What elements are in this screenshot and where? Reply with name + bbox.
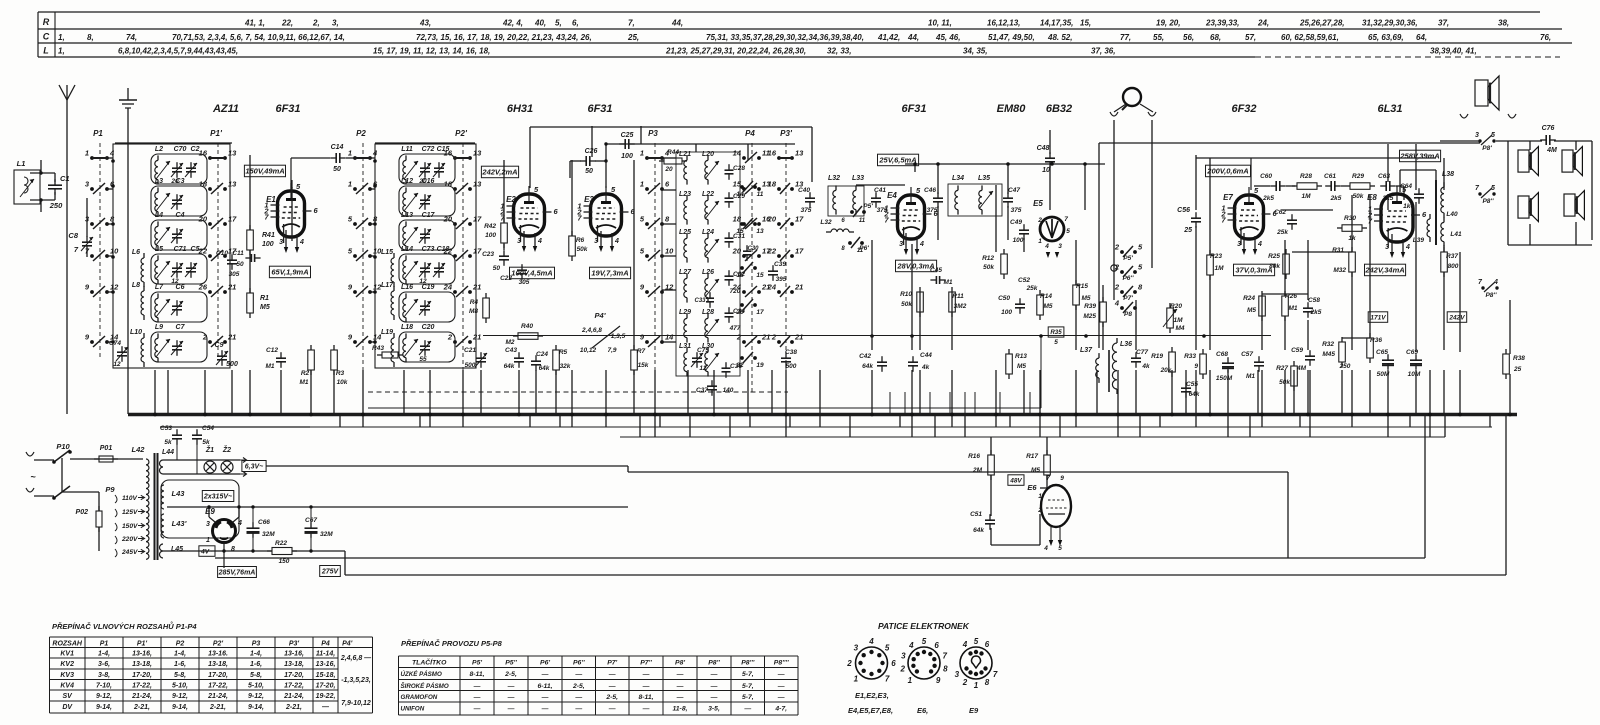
svg-text:—: — <box>642 706 650 713</box>
svg-text:L41: L41 <box>1450 231 1462 238</box>
svg-text:3: 3 <box>206 521 210 528</box>
svg-text:9: 9 <box>936 676 941 685</box>
svg-text:C59: C59 <box>1291 347 1303 354</box>
svg-text:—: — <box>676 683 684 690</box>
svg-text:2-21,: 2-21, <box>209 704 226 711</box>
svg-text:6F31: 6F31 <box>587 103 612 115</box>
svg-text:75,31, 33,35,37,28,29,30,32,34: 75,31, 33,35,37,28,29,30,32,34,36,39,38,… <box>706 33 864 42</box>
svg-text:L4: L4 <box>155 212 163 219</box>
svg-text:375: 375 <box>1011 207 1022 214</box>
svg-text:250: 250 <box>49 201 63 210</box>
svg-text:19V,7,3mA: 19V,7,3mA <box>591 269 628 278</box>
svg-text:C24: C24 <box>536 351 548 358</box>
svg-text:5-8,: 5-8, <box>174 672 186 679</box>
svg-text:20k: 20k <box>1160 367 1172 374</box>
svg-text:M8: M8 <box>469 308 478 315</box>
svg-text:10: 10 <box>665 247 674 256</box>
svg-text:3: 3 <box>1475 132 1479 139</box>
svg-text:8,: 8, <box>87 33 94 42</box>
svg-text:11: 11 <box>857 248 864 254</box>
svg-text:P8'''': P8'''' <box>774 660 789 667</box>
svg-text:E4: E4 <box>887 191 897 200</box>
svg-text:13-16,: 13-16, <box>316 661 336 668</box>
svg-text:R20: R20 <box>1170 303 1182 310</box>
svg-text:L39: L39 <box>1413 237 1425 244</box>
svg-text:L11: L11 <box>401 146 413 153</box>
svg-text:1k6: 1k6 <box>1403 203 1414 210</box>
svg-text:4: 4 <box>1044 243 1049 250</box>
svg-text:KV2: KV2 <box>60 661 74 668</box>
svg-text:21: 21 <box>472 333 481 342</box>
svg-text:E9: E9 <box>969 706 979 715</box>
svg-text:21: 21 <box>794 283 803 292</box>
svg-text:7: 7 <box>942 652 947 661</box>
svg-text:C74: C74 <box>109 340 121 347</box>
svg-text:P6'': P6'' <box>1122 275 1133 282</box>
svg-text:50: 50 <box>493 265 501 272</box>
svg-text:R36: R36 <box>1370 337 1382 344</box>
svg-text:125V: 125V <box>122 509 138 516</box>
svg-text:R6: R6 <box>576 237 585 244</box>
svg-text:17: 17 <box>756 309 764 316</box>
svg-text:C68: C68 <box>1216 351 1228 358</box>
svg-text:23,39,33,: 23,39,33, <box>1205 19 1239 28</box>
svg-text:10k: 10k <box>337 379 348 386</box>
svg-text:P6': P6' <box>540 660 550 667</box>
svg-text:48. 52,: 48. 52, <box>1047 33 1072 42</box>
svg-text:L6: L6 <box>132 249 140 256</box>
svg-text:8: 8 <box>943 665 948 674</box>
svg-text:13: 13 <box>756 228 764 235</box>
svg-text:8-11,: 8-11, <box>470 671 485 678</box>
svg-text:2k5: 2k5 <box>1262 195 1274 202</box>
svg-text:100: 100 <box>621 153 633 160</box>
svg-text:17-20,: 17-20, <box>316 683 336 690</box>
svg-text:L19: L19 <box>381 329 393 336</box>
svg-text:1: 1 <box>1038 238 1042 245</box>
svg-text:65, 63,69,: 65, 63,69, <box>1368 33 1404 42</box>
svg-text:150V,49mA: 150V,49mA <box>245 167 284 176</box>
svg-text:1: 1 <box>908 676 913 685</box>
svg-text:L14: L14 <box>401 246 413 253</box>
svg-text:21: 21 <box>794 333 803 342</box>
svg-text:R17: R17 <box>1026 453 1038 460</box>
svg-text:150: 150 <box>279 558 290 565</box>
svg-text:C72: C72 <box>422 146 435 153</box>
svg-text:—: — <box>608 683 616 690</box>
svg-text:R7: R7 <box>637 348 646 355</box>
svg-text:C22: C22 <box>500 275 512 282</box>
svg-text:9: 9 <box>1060 475 1064 482</box>
svg-text:—: — <box>507 706 515 713</box>
svg-text:7,: 7, <box>628 19 635 28</box>
svg-text:C3: C3 <box>176 178 185 185</box>
svg-text:21: 21 <box>472 283 481 292</box>
svg-text:2,4,6,8 —: 2,4,6,8 — <box>340 655 372 662</box>
svg-text:R33: R33 <box>1184 353 1196 360</box>
svg-text:P3: P3 <box>648 129 658 138</box>
svg-text:M4: M4 <box>1175 325 1184 332</box>
svg-text:9-12,: 9-12, <box>248 693 264 700</box>
svg-text:21: 21 <box>227 283 236 292</box>
svg-text:L2: L2 <box>155 146 163 153</box>
svg-text:—: — <box>608 671 616 678</box>
svg-text:17-22,: 17-22, <box>284 683 304 690</box>
svg-text:2x315V~: 2x315V~ <box>203 494 232 501</box>
svg-text:16,12,13,: 16,12,13, <box>987 19 1020 28</box>
svg-text:15,: 15, <box>1080 19 1091 28</box>
svg-text:—: — <box>473 683 481 690</box>
svg-text:8-11,: 8-11, <box>639 694 654 701</box>
svg-text:2: 2 <box>736 333 742 342</box>
svg-text:32, 33,: 32, 33, <box>827 47 851 56</box>
svg-text:3: 3 <box>955 670 960 679</box>
svg-text:245V: 245V <box>121 549 138 556</box>
svg-text:258V,39mA: 258V,39mA <box>1399 152 1439 161</box>
svg-text:4: 4 <box>1114 299 1120 308</box>
svg-text:L32: L32 <box>820 219 832 226</box>
svg-text:100: 100 <box>1013 237 1024 244</box>
svg-text:L8: L8 <box>132 282 140 289</box>
svg-text:—: — <box>676 671 684 678</box>
svg-text:R27: R27 <box>1276 365 1288 372</box>
svg-text:5: 5 <box>974 637 979 646</box>
svg-text:C11: C11 <box>232 250 244 257</box>
svg-text:E4,E5,E7,E8,: E4,E5,E7,E8, <box>848 706 893 715</box>
svg-text:25k: 25k <box>1276 229 1288 236</box>
svg-text:R43: R43 <box>372 345 384 352</box>
svg-text:C4: C4 <box>176 212 185 219</box>
svg-text:P3': P3' <box>780 129 793 138</box>
svg-text:5k: 5k <box>164 439 172 446</box>
svg-text:7: 7 <box>1064 216 1068 223</box>
svg-text:50k: 50k <box>983 264 994 271</box>
svg-text:C5: C5 <box>191 246 200 253</box>
svg-text:M5: M5 <box>1017 363 1026 370</box>
svg-text:41,42,: 41,42, <box>877 33 900 42</box>
svg-text:C65: C65 <box>1376 349 1388 356</box>
svg-text:E7: E7 <box>1223 193 1233 202</box>
svg-text:C40: C40 <box>798 187 810 194</box>
svg-text:R44: R44 <box>667 149 679 156</box>
svg-text:1: 1 <box>85 149 89 158</box>
svg-text:24: 24 <box>767 283 777 292</box>
svg-text:2: 2 <box>771 333 777 342</box>
svg-text:6F31: 6F31 <box>275 103 300 115</box>
svg-text:L43': L43' <box>172 519 187 528</box>
svg-text:28V,0,3mA: 28V,0,3mA <box>896 262 934 271</box>
svg-text:250: 250 <box>1339 363 1351 370</box>
svg-text:L13: L13 <box>401 212 413 219</box>
svg-text:—: — <box>710 694 718 701</box>
svg-text:1M: 1M <box>1214 265 1224 272</box>
svg-text:SV: SV <box>63 693 74 700</box>
svg-text:20: 20 <box>664 166 673 173</box>
svg-text:P3: P3 <box>252 641 261 648</box>
svg-text:R14: R14 <box>1040 293 1052 300</box>
svg-text:E6: E6 <box>1027 483 1037 492</box>
svg-text:100: 100 <box>262 241 274 248</box>
svg-text:L27: L27 <box>679 269 692 276</box>
svg-text:25,26,27,28,: 25,26,27,28, <box>1299 19 1344 28</box>
svg-text:21-24,: 21-24, <box>283 693 304 700</box>
svg-text:P8'': P8'' <box>1482 198 1493 205</box>
svg-text:10: 10 <box>110 247 119 256</box>
svg-text:P8': P8' <box>675 660 685 667</box>
svg-text:E5: E5 <box>1033 199 1043 208</box>
svg-text:3: 3 <box>1385 244 1389 251</box>
svg-text:2-5,: 2-5, <box>504 671 517 678</box>
svg-text:C58: C58 <box>1308 297 1320 304</box>
svg-text:M5: M5 <box>1043 303 1052 310</box>
svg-text:64k: 64k <box>1189 391 1200 398</box>
svg-text:EM80: EM80 <box>997 103 1027 115</box>
svg-text:1M: 1M <box>1301 193 1311 200</box>
svg-text:8: 8 <box>985 678 990 687</box>
svg-text:4: 4 <box>1405 244 1410 251</box>
svg-text:C73: C73 <box>422 246 435 253</box>
svg-text:2: 2 <box>1037 217 1042 224</box>
svg-text:21: 21 <box>761 333 770 342</box>
svg-text:285V,76mA: 285V,76mA <box>218 570 256 577</box>
svg-text:56,: 56, <box>1183 33 1194 42</box>
svg-text:34, 35,: 34, 35, <box>963 47 987 56</box>
svg-text:17-22,: 17-22, <box>132 683 152 690</box>
svg-text:C7: C7 <box>176 324 186 331</box>
svg-text:C20: C20 <box>422 324 435 331</box>
svg-text:P01: P01 <box>100 445 113 452</box>
svg-text:M5: M5 <box>1031 467 1040 474</box>
svg-text:C46: C46 <box>924 187 936 194</box>
svg-text:R12: R12 <box>982 255 994 262</box>
svg-text:C57: C57 <box>1241 351 1253 358</box>
svg-text:64k: 64k <box>504 363 515 370</box>
svg-text:2,: 2, <box>312 19 320 28</box>
svg-text:6,8,10,42,2,3,4,5,7,9,44,43,43: 6,8,10,42,2,3,4,5,7,9,44,43,43,45, <box>118 47 238 56</box>
svg-text:13-18,: 13-18, <box>132 661 152 668</box>
svg-text:20: 20 <box>735 309 744 316</box>
svg-text:—: — <box>642 671 650 678</box>
svg-text:M45: M45 <box>1322 351 1335 358</box>
svg-text:P8''': P8''' <box>741 660 755 667</box>
svg-text:8: 8 <box>231 546 235 553</box>
svg-text:C48: C48 <box>1037 145 1050 152</box>
svg-text:1: 1 <box>974 681 979 690</box>
svg-text:9-14,: 9-14, <box>96 704 112 711</box>
svg-text:375: 375 <box>801 207 812 214</box>
svg-text:ŠIROKÉ PÁSMO: ŠIROKÉ PÁSMO <box>401 682 449 690</box>
svg-text:64,: 64, <box>1416 33 1427 42</box>
svg-text:50: 50 <box>236 261 244 268</box>
svg-text:1: 1 <box>206 537 210 544</box>
svg-text:M5: M5 <box>1081 295 1090 302</box>
svg-text:P5': P5' <box>863 203 873 210</box>
svg-text:1-6,: 1-6, <box>174 661 186 668</box>
svg-text:395: 395 <box>776 276 787 283</box>
svg-text:P4': P4' <box>595 311 606 320</box>
svg-text:L34: L34 <box>952 175 964 182</box>
svg-text:21-24,: 21-24, <box>207 693 228 700</box>
svg-text:72,73, 15, 16, 17, 18, 19, 20,: 72,73, 15, 16, 17, 18, 19, 20,22, 21,23,… <box>416 33 592 42</box>
svg-text:55,: 55, <box>1153 33 1164 42</box>
svg-text:DV: DV <box>62 704 73 711</box>
svg-text:L29: L29 <box>679 309 691 316</box>
svg-text:150M: 150M <box>1216 375 1233 382</box>
svg-text:C6: C6 <box>176 284 185 291</box>
svg-text:Ž1: Ž1 <box>205 445 214 454</box>
svg-text:1-4,: 1-4, <box>250 651 262 658</box>
svg-text:7,9-10,12: 7,9-10,12 <box>341 700 371 707</box>
svg-text:GRAMOFON: GRAMOFON <box>401 694 438 701</box>
svg-text:64k: 64k <box>539 365 550 372</box>
svg-text:C54: C54 <box>202 425 214 432</box>
svg-text:4: 4 <box>109 149 115 158</box>
svg-text:500: 500 <box>226 361 238 368</box>
svg-text:50: 50 <box>333 166 341 173</box>
svg-text:L10: L10 <box>130 329 142 336</box>
svg-text:C2: C2 <box>191 146 200 153</box>
svg-text:21,23, 25,27,29,31, 20,22,24,: 21,23, 25,27,29,31, 20,22,24, 26,28,30, <box>665 47 806 56</box>
svg-text:TLAČÍTKO: TLAČÍTKO <box>412 658 447 667</box>
svg-text:—: — <box>743 706 751 713</box>
svg-text:M5: M5 <box>260 304 270 311</box>
svg-text:21-24,: 21-24, <box>131 693 152 700</box>
svg-text:E9: E9 <box>205 507 215 516</box>
svg-text:2: 2 <box>1114 283 1120 292</box>
svg-text:13-16,: 13-16, <box>284 651 304 658</box>
svg-text:M32: M32 <box>1333 267 1346 274</box>
svg-text:5-10,: 5-10, <box>248 683 264 690</box>
svg-text:720: 720 <box>730 288 741 295</box>
svg-text:11-14,: 11-14, <box>316 651 335 658</box>
svg-text:2: 2 <box>962 678 968 687</box>
svg-text:M25: M25 <box>1083 313 1096 320</box>
svg-text:200V,0,6mA: 200V,0,6mA <box>1206 167 1248 176</box>
svg-text:17: 17 <box>795 215 804 224</box>
svg-text:PŘEPÍNAČ VLNOVÝCH ROZSAHŮ: PŘEPÍNAČ VLNOVÝCH ROZSAHŮ P1-P4 <box>52 621 197 631</box>
svg-text:R16: R16 <box>968 453 980 460</box>
svg-text:12: 12 <box>113 361 121 368</box>
svg-text:4: 4 <box>237 520 242 527</box>
svg-text:4: 4 <box>299 239 304 246</box>
svg-text:C28: C28 <box>733 165 745 172</box>
svg-text:4k: 4k <box>921 364 930 371</box>
svg-text:6: 6 <box>934 641 939 650</box>
svg-text:R13: R13 <box>1015 353 1027 360</box>
svg-text:1,: 1, <box>58 47 65 56</box>
svg-text:C19: C19 <box>422 284 435 291</box>
svg-text:1-4,: 1-4, <box>98 651 110 658</box>
svg-text:242V: 242V <box>1448 314 1465 321</box>
svg-text:9: 9 <box>1194 363 1198 370</box>
svg-text:L37: L37 <box>1080 347 1093 354</box>
svg-text:L22: L22 <box>702 191 714 198</box>
svg-text:1,: 1, <box>58 33 65 42</box>
svg-text:R2: R2 <box>301 370 310 377</box>
svg-text:100: 100 <box>1001 309 1012 316</box>
svg-text:17: 17 <box>473 215 482 224</box>
svg-text:L25: L25 <box>679 229 691 236</box>
svg-text:KV3: KV3 <box>60 672 74 679</box>
svg-text:25: 25 <box>1513 366 1522 373</box>
svg-text:800: 800 <box>1448 263 1459 270</box>
svg-text:E6,: E6, <box>917 706 928 715</box>
svg-text:C66: C66 <box>258 519 270 526</box>
svg-text:C26: C26 <box>585 148 598 155</box>
svg-text:24,: 24, <box>1257 19 1269 28</box>
svg-text:—: — <box>541 671 549 678</box>
svg-text:13-16.: 13-16. <box>208 651 228 658</box>
svg-text:C: C <box>43 32 50 42</box>
svg-text:44,: 44, <box>671 19 683 28</box>
svg-text:2-5,: 2-5, <box>605 694 618 701</box>
svg-text:—: — <box>710 683 718 690</box>
svg-text:—: — <box>541 706 549 713</box>
svg-text:R30: R30 <box>1344 215 1356 222</box>
svg-text:16: 16 <box>199 149 208 158</box>
svg-text:17-20,: 17-20, <box>132 672 152 679</box>
svg-text:7: 7 <box>993 670 998 679</box>
svg-text:1: 1 <box>348 180 352 189</box>
svg-text:C30: C30 <box>747 246 759 252</box>
svg-text:4: 4 <box>868 637 874 646</box>
svg-text:P5': P5' <box>472 660 482 667</box>
svg-text:L43: L43 <box>172 489 186 498</box>
svg-text:51,47, 49,50,: 51,47, 49,50, <box>988 33 1035 42</box>
svg-text:43,: 43, <box>419 19 431 28</box>
svg-text:R5: R5 <box>559 349 568 356</box>
svg-text:—: — <box>642 683 650 690</box>
svg-text:38,39,40, 41,: 38,39,40, 41, <box>1430 47 1477 56</box>
svg-text:5: 5 <box>1058 545 1062 552</box>
svg-text:500: 500 <box>786 363 797 370</box>
svg-text:C8: C8 <box>68 231 78 240</box>
svg-text:L40: L40 <box>1446 211 1458 218</box>
svg-text:32k: 32k <box>560 363 571 370</box>
svg-text:4: 4 <box>614 238 619 245</box>
svg-text:11: 11 <box>757 191 764 198</box>
svg-text:—: — <box>574 706 582 713</box>
svg-text:—: — <box>676 694 684 701</box>
svg-text:1-4,: 1-4, <box>174 651 186 658</box>
svg-text:C39: C39 <box>774 261 786 268</box>
svg-text:C38: C38 <box>785 349 797 356</box>
svg-text:P5': P5' <box>1123 255 1133 262</box>
svg-text:19, 20,: 19, 20, <box>1156 19 1180 28</box>
svg-text:R3: R3 <box>336 370 345 377</box>
svg-text:M1: M1 <box>1288 305 1297 312</box>
svg-text:3: 3 <box>854 643 859 652</box>
svg-text:R23: R23 <box>1210 253 1222 260</box>
svg-text:22,: 22, <box>281 19 293 28</box>
svg-text:Ž2: Ž2 <box>222 445 231 454</box>
svg-text:1-6,: 1-6, <box>250 661 262 668</box>
svg-text:C23: C23 <box>482 251 494 258</box>
svg-text:21: 21 <box>227 333 236 342</box>
svg-text:P1': P1' <box>137 641 148 648</box>
svg-text:4: 4 <box>537 238 542 245</box>
svg-text:37, 36,: 37, 36, <box>1091 47 1115 56</box>
svg-text:6F31: 6F31 <box>901 103 926 115</box>
svg-text:L15: L15 <box>381 249 393 256</box>
svg-text:13: 13 <box>228 149 237 158</box>
svg-text:C18: C18 <box>437 246 450 253</box>
svg-text:L44: L44 <box>162 449 174 456</box>
svg-text:P3': P3' <box>289 641 300 648</box>
svg-text:1: 1 <box>640 180 644 189</box>
svg-text:42, 4,: 42, 4, <box>502 19 523 28</box>
svg-text:4: 4 <box>919 241 924 248</box>
